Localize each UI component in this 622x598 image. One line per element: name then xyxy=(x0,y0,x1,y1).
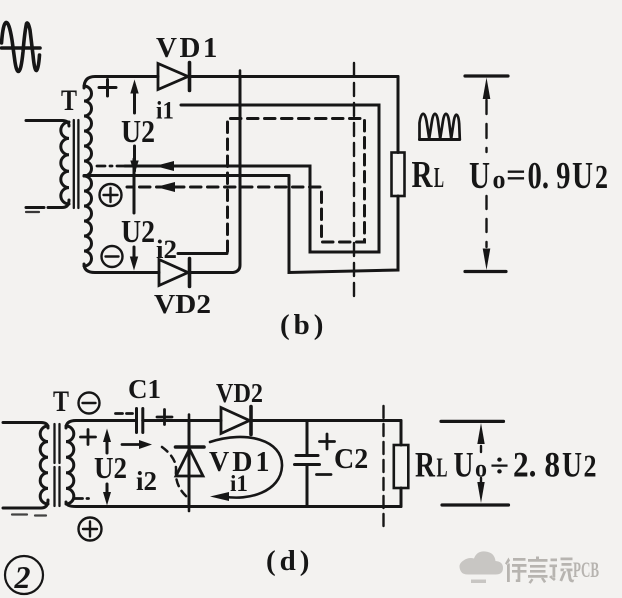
ac sine source symbol xyxy=(2,22,41,71)
diode VD1 xyxy=(158,63,190,91)
svg-text:U: U xyxy=(572,155,593,197)
svg-text:U2: U2 xyxy=(94,450,127,485)
wire stub noise dashes (d) xyxy=(12,515,46,516)
ripple output waveform symbol xyxy=(420,114,460,140)
wire RL bottom down and left to center-tap return xyxy=(289,176,398,273)
diode VD2 xyxy=(159,259,190,287)
capacitor C2 branch wire lower xyxy=(306,465,309,507)
wire stub noise dash (b) xyxy=(26,211,39,213)
svg-text:R: R xyxy=(412,154,433,196)
wire top-right corner down to RL xyxy=(397,77,400,153)
C1 minus dashes xyxy=(116,412,133,415)
svg-text:VD2: VD2 xyxy=(154,289,211,319)
diode VD2 (d) xyxy=(221,407,251,435)
svg-text:2: 2 xyxy=(584,448,597,484)
voltage arrow U2 upper xyxy=(130,80,138,175)
capacitor C2 xyxy=(295,456,320,465)
svg-text:i1: i1 xyxy=(230,471,248,496)
current loop i2 dashed path xyxy=(127,119,365,252)
watermark text xyxy=(505,557,574,584)
svg-text:÷: ÷ xyxy=(490,449,509,485)
transformer T2 secondary winding xyxy=(66,426,74,504)
svg-text:o: o xyxy=(475,456,487,483)
value label Uo approx 2.8U2 xyxy=(454,445,597,485)
capacitor C1 xyxy=(137,409,143,433)
current loop i1 dash-dot tail xyxy=(97,165,125,168)
svg-text:U2: U2 xyxy=(121,113,155,149)
svg-text:0. 9: 0. 9 xyxy=(528,155,571,197)
svg-text:(b): (b) xyxy=(280,309,327,341)
C2 plus mark xyxy=(320,434,335,449)
current i1 curved arrow (d) xyxy=(210,437,282,501)
current i2 arrow (d) xyxy=(122,440,187,497)
figure number circled 2 xyxy=(5,556,43,595)
circled minus node top (d) xyxy=(79,393,100,414)
svg-text:2: 2 xyxy=(595,159,608,196)
svg-text:i2: i2 xyxy=(136,466,157,496)
svg-text:T: T xyxy=(53,385,69,418)
transformer T secondary winding upper xyxy=(84,86,92,176)
svg-text:2. 8: 2. 8 xyxy=(513,445,560,485)
voltage arrow U2 lower xyxy=(130,159,138,271)
output dimension arrow (d) xyxy=(441,421,509,505)
resistor RL (d) branch wire lower xyxy=(400,488,403,507)
svg-text:L: L xyxy=(434,163,444,194)
resistor RL (d) xyxy=(394,445,409,488)
circled minus node lower winding xyxy=(102,246,123,267)
capacitor C2 branch wire upper xyxy=(306,421,309,456)
circled plus node bottom (d) xyxy=(79,518,102,541)
wire center tap xyxy=(84,174,289,177)
transformer T2 core xyxy=(55,424,60,506)
voltage arrow U2 (d) xyxy=(103,429,111,506)
svg-text:=: = xyxy=(506,157,526,194)
junction node VD1 branch top xyxy=(188,415,191,427)
label RL (d) xyxy=(415,445,448,485)
current loop i1 solid path xyxy=(125,105,379,252)
transformer T secondary winding lower xyxy=(84,176,92,266)
resistor RL xyxy=(392,153,405,197)
polarity minus (d) winding bottom xyxy=(74,497,89,500)
wire VD1 branch vertical xyxy=(188,421,191,507)
svg-text:C2: C2 xyxy=(334,444,368,475)
transformer T2 primary winding xyxy=(3,423,48,509)
transformer T core xyxy=(74,120,79,208)
arrowhead i1 left xyxy=(155,161,174,171)
label RL (b) xyxy=(412,154,445,196)
svg-text:U: U xyxy=(454,445,474,485)
svg-text:C1: C1 xyxy=(128,374,161,404)
C2 minus mark xyxy=(317,473,332,476)
wire VD2 cathode up to top wire xyxy=(190,77,240,273)
svg-text:i2: i2 xyxy=(156,235,177,264)
current i2 label stub wire xyxy=(178,252,227,255)
wire secondary bottom to VD2 anode xyxy=(84,264,159,273)
wire C1 to VD2 anode with VD1 junction xyxy=(143,419,221,422)
junction node top wire / VD2 riser xyxy=(239,71,242,83)
svg-text:VD1: VD1 xyxy=(156,32,220,64)
diode VD1 (d) vertical xyxy=(176,447,205,476)
svg-text:2: 2 xyxy=(14,559,31,595)
svg-text:VD2: VD2 xyxy=(216,378,263,408)
wire VD1 cathode to top-right corner xyxy=(190,75,398,78)
C1 plus mark xyxy=(157,410,172,425)
dashed boundary cut line (d) xyxy=(382,406,384,526)
svg-text:U: U xyxy=(562,445,582,485)
svg-text:i1: i1 xyxy=(156,98,174,125)
watermark logo xyxy=(459,551,599,583)
value label Uo=0.9U2 xyxy=(469,155,608,197)
svg-text:L: L xyxy=(437,453,448,483)
svg-text:(d): (d) xyxy=(266,545,313,577)
dashed boundary cut line (b) xyxy=(353,63,355,303)
junction node VD1 branch bottom xyxy=(188,501,191,511)
svg-text:U2: U2 xyxy=(121,213,155,249)
transformer T primary winding xyxy=(26,121,69,208)
svg-text:U: U xyxy=(469,155,490,197)
svg-text:R: R xyxy=(415,445,436,485)
wire secondary top to VD1 anode xyxy=(84,77,158,89)
svg-text:o: o xyxy=(493,165,506,194)
svg-text:T: T xyxy=(61,84,77,117)
wire VD2 cathode to RL branch xyxy=(251,419,401,422)
svg-text:PCB: PCB xyxy=(573,557,599,582)
wire secondary top to C1 xyxy=(66,421,136,429)
output dimension arrow (b) xyxy=(465,76,508,272)
circled plus node lower winding xyxy=(100,184,122,206)
resistor RL (d) branch wire upper xyxy=(400,421,403,446)
polarity plus (d) winding top xyxy=(81,430,96,445)
arrowhead i2 left xyxy=(156,182,175,192)
wire bottom (d) xyxy=(66,502,401,507)
polarity plus upper winding xyxy=(99,80,116,97)
